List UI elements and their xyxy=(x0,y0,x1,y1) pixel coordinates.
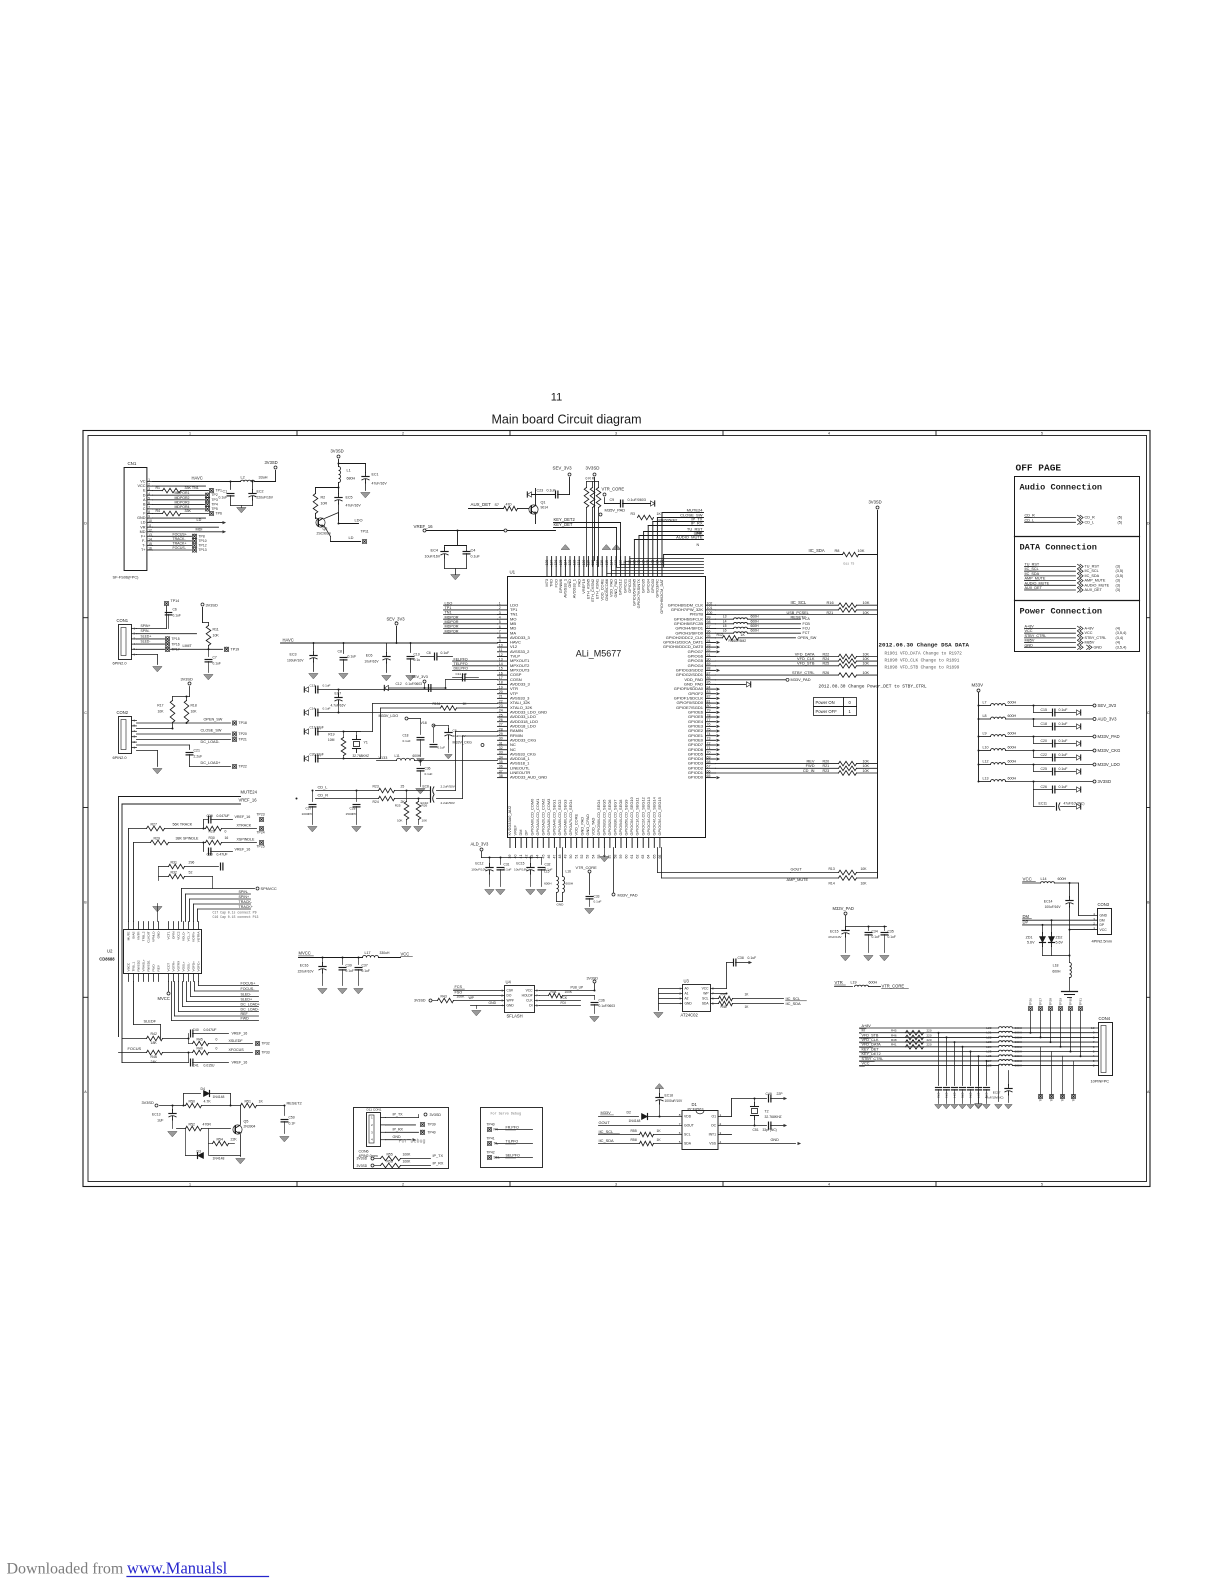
resistor R16 10K IIC_SCL xyxy=(716,600,878,608)
svg-text:STBY_CTRL: STBY_CTRL xyxy=(1085,636,1107,640)
svg-text:AUD_3V3: AUD_3V3 xyxy=(1098,716,1118,721)
connector CON1 pins xyxy=(132,626,137,656)
wire CD_R row xyxy=(296,736,498,800)
svg-text:R26: R26 xyxy=(823,671,830,675)
text For Debug xyxy=(399,1139,426,1145)
svg-text:FOCUS+: FOCUS+ xyxy=(173,532,187,536)
svg-text:TP10: TP10 xyxy=(199,539,207,543)
svg-text:VCL_Y: VCL_Y xyxy=(187,932,191,942)
svg-text:5.6V: 5.6V xyxy=(1056,941,1064,945)
svg-text:TP36: TP36 xyxy=(1061,1094,1065,1102)
svg-text:D4: D4 xyxy=(201,1087,206,1091)
svg-text:22: 22 xyxy=(499,699,503,703)
node SEV_3V5 xyxy=(412,675,428,689)
svg-text:220: 220 xyxy=(927,1043,932,1047)
svg-text:3: 3 xyxy=(499,611,501,615)
svg-text:U3: U3 xyxy=(684,979,690,984)
svg-text:C10: C10 xyxy=(414,653,420,657)
wire xtal upper row xyxy=(304,684,497,693)
svg-text:32.768KHZ: 32.768KHZ xyxy=(765,1115,782,1119)
svg-text:VCC: VCC xyxy=(401,952,410,957)
svg-text:CD_R: CD_R xyxy=(1085,516,1096,520)
svg-text:C: C xyxy=(143,507,146,511)
svg-text:0.1uF/0603: 0.1uF/0603 xyxy=(599,1004,616,1008)
svg-text:(4): (4) xyxy=(1116,641,1121,645)
svg-text:TP30: TP30 xyxy=(1069,998,1073,1006)
svg-text:7: 7 xyxy=(679,1122,681,1126)
svg-text:R54: R54 xyxy=(217,1138,223,1142)
svg-text:97: 97 xyxy=(707,625,711,629)
svg-text:GPIOC5/LCD_SEG15: GPIOC5/LCD_SEG15 xyxy=(657,797,662,835)
svg-text:CD_L: CD_L xyxy=(1085,520,1095,524)
table power on-off xyxy=(814,698,857,716)
svg-text:90: 90 xyxy=(707,657,711,661)
svg-text:66: 66 xyxy=(707,769,711,773)
svg-text:4: 4 xyxy=(828,432,830,436)
node M33V_PAD pad xyxy=(833,906,887,928)
svg-text:4PIN2.5mm: 4PIN2.5mm xyxy=(1092,939,1113,944)
svg-text:R16: R16 xyxy=(827,600,834,605)
svg-text:EC6: EC6 xyxy=(366,654,373,658)
capacitor C50 0.1F xyxy=(280,1106,295,1142)
svg-text:VCC: VCC xyxy=(862,1062,870,1066)
svg-text:EC18: EC18 xyxy=(665,1094,674,1098)
svg-text:SPNVCC: SPNVCC xyxy=(261,886,277,891)
svg-text:0: 0 xyxy=(216,1047,218,1051)
svg-text:M33V_LDO: M33V_LDO xyxy=(1098,762,1121,767)
svg-text:30: 30 xyxy=(499,737,503,741)
wire HAVC row U1 xyxy=(281,638,498,645)
offpage power signals xyxy=(1025,625,1128,650)
svg-text:C23: C23 xyxy=(537,489,544,493)
wire AUX_DET xyxy=(469,502,529,509)
svg-text:VDD: VDD xyxy=(684,1115,692,1119)
svg-text:DC_LOAD-: DC_LOAD- xyxy=(241,1008,260,1012)
inductor L19 600H VTR xyxy=(835,980,909,989)
svg-text:59: 59 xyxy=(619,855,623,859)
svg-text:(4): (4) xyxy=(1116,627,1121,631)
connector CON2 pins xyxy=(132,718,137,749)
svg-text:1N4148: 1N4148 xyxy=(213,1095,225,1099)
text DATA Connection xyxy=(1020,543,1097,553)
svg-text:10K: 10K xyxy=(863,759,870,763)
wire SPIN- row xyxy=(137,629,197,634)
svg-text:C12: C12 xyxy=(396,682,402,686)
crystal T2 32.768KHZ xyxy=(751,1099,782,1127)
svg-text:VREF_16: VREF_16 xyxy=(232,1061,248,1065)
resistor R26 10K xyxy=(414,799,428,832)
svg-text:5: 5 xyxy=(679,1140,681,1144)
wire GND_PAD arrow xyxy=(716,682,751,687)
svg-text:22K: 22K xyxy=(231,1138,238,1142)
capacitor EC10 2.2uF/50V xyxy=(421,795,456,805)
svg-text:14: 14 xyxy=(499,662,503,666)
resistor R25 10K xyxy=(395,791,411,832)
svg-text:0.1uF: 0.1uF xyxy=(173,614,181,618)
svg-text:8: 8 xyxy=(679,1113,681,1117)
svg-text:0.1uF: 0.1uF xyxy=(1059,708,1068,712)
wire U4 vcc xyxy=(540,977,599,992)
svg-text:EC15: EC15 xyxy=(830,930,839,934)
wire AMP_MUTE long xyxy=(662,848,839,883)
svg-text:SEV_3V3: SEV_3V3 xyxy=(1098,703,1117,708)
capacitor C12 0.47uF/0603 xyxy=(396,682,431,691)
svg-text:VOTRA: VOTRA xyxy=(197,931,201,943)
svg-text:13: 13 xyxy=(499,657,503,661)
svg-text:FWD: FWD xyxy=(152,964,156,972)
svg-text:OC: OC xyxy=(711,1124,717,1128)
svg-text:2: 2 xyxy=(402,432,404,436)
svg-text:0.1uF: 0.1uF xyxy=(1059,785,1068,789)
U2 top pins xyxy=(127,922,201,943)
svg-text:VREF_16: VREF_16 xyxy=(235,848,251,852)
svg-text:C17 Cap 0.1s connect P9: C17 Cap 0.1s connect P9 xyxy=(213,911,257,915)
svg-text:600H: 600H xyxy=(544,882,551,886)
svg-text:IIC_SDA: IIC_SDA xyxy=(786,1001,802,1006)
text note R1901 xyxy=(885,652,963,671)
svg-text:C20: C20 xyxy=(1041,739,1047,743)
svg-text:74: 74 xyxy=(707,732,711,736)
svg-text:TN1: TN1 xyxy=(445,611,452,615)
svg-text:10K: 10K xyxy=(191,710,198,714)
wire DC_LOAD- row xyxy=(137,737,247,744)
svg-text:R32: R32 xyxy=(171,871,177,875)
capacitor C49 22P xyxy=(766,1092,788,1102)
svg-text:VREF_16: VREF_16 xyxy=(232,1032,248,1036)
svg-text:VOSL-: VOSL- xyxy=(187,962,191,971)
inductor L2 33uH xyxy=(241,471,276,482)
svg-text:VCC: VCC xyxy=(1100,928,1108,932)
svg-text:4: 4 xyxy=(679,1002,681,1006)
U2 bottom pins xyxy=(127,959,201,981)
svg-text:DM: DM xyxy=(518,829,523,835)
svg-text:85: 85 xyxy=(707,681,711,685)
svg-text:TP4: TP4 xyxy=(212,502,218,506)
ground below EC2 xyxy=(237,506,246,513)
svg-text:GOUT: GOUT xyxy=(599,1120,611,1125)
resistor R134 1K xyxy=(433,702,498,710)
svg-text:48: 48 xyxy=(558,855,562,859)
svg-text:Power OFF: Power OFF xyxy=(816,709,838,714)
testpoint TP34-TP37 xyxy=(1038,1047,1075,1102)
svg-text:EC13: EC13 xyxy=(152,1113,161,1117)
svg-text:UNK: UNK xyxy=(695,531,703,535)
svg-text:AUX_DET: AUX_DET xyxy=(1025,586,1043,590)
svg-text:GND: GND xyxy=(1094,645,1103,649)
svg-text:2012.08.30 Change Power_DET to: 2012.08.30 Change Power_DET to STBY_CTRL xyxy=(819,684,927,690)
svg-text:0.1uF: 0.1uF xyxy=(348,655,357,659)
inductor L17 330uH xyxy=(363,951,413,958)
svg-text:DC_LOAD+: DC_LOAD+ xyxy=(201,761,222,765)
svg-text:VTR_CORE: VTR_CORE xyxy=(882,984,905,989)
capacitor EC8 2.2uF/50V xyxy=(423,785,456,795)
node 3V3SD top-center xyxy=(586,466,600,561)
offpage data signals xyxy=(1025,563,1124,593)
svg-text:SF-FS06(FPC): SF-FS06(FPC) xyxy=(113,575,140,580)
svg-text:C31: C31 xyxy=(504,863,510,867)
svg-text:73: 73 xyxy=(707,737,711,741)
svg-text:47uF/10V(NC): 47uF/10V(NC) xyxy=(1064,802,1085,806)
svg-text:TP27: TP27 xyxy=(1039,998,1043,1006)
svg-text:(5): (5) xyxy=(1118,520,1123,524)
svg-text:TP40: TP40 xyxy=(428,1131,436,1135)
svg-text:31: 31 xyxy=(499,741,503,745)
svg-text:33K TN1: 33K TN1 xyxy=(185,486,199,490)
svg-text:GND_CPAD: GND_CPAD xyxy=(585,814,590,836)
resistor R19 10M xyxy=(328,731,346,760)
svg-text:34: 34 xyxy=(499,755,503,759)
svg-text:EC8: EC8 xyxy=(423,785,430,789)
svg-text:R11: R11 xyxy=(213,628,219,632)
svg-text:10K: 10K xyxy=(422,819,428,823)
svg-text:3V3SD: 3V3SD xyxy=(206,603,219,608)
svg-text:3: 3 xyxy=(615,1183,617,1187)
inductor L16 600H xyxy=(557,848,573,907)
svg-text:M: M xyxy=(862,1029,865,1033)
text note 2012 power xyxy=(819,684,927,690)
svg-text:10K: 10K xyxy=(861,882,868,886)
svg-text:6: 6 xyxy=(1093,1045,1095,1049)
svg-text:25: 25 xyxy=(401,785,405,789)
svg-text:L19: L19 xyxy=(851,981,857,985)
svg-text:AUDIO_MUTE: AUDIO_MUTE xyxy=(1085,583,1110,587)
svg-text:Downloaded from: Downloaded from xyxy=(7,1561,124,1578)
svg-text:DP: DP xyxy=(1100,923,1105,927)
svg-text:HOLD#: HOLD# xyxy=(522,994,533,998)
svg-text:WP#: WP# xyxy=(507,999,514,1003)
svg-text:A+8V: A+8V xyxy=(1085,627,1095,631)
svg-text:37: 37 xyxy=(499,769,503,773)
svg-text:(3,5): (3,5) xyxy=(1116,574,1124,578)
testpoint TP26-TP31 xyxy=(1028,998,1082,1057)
node M33V xyxy=(972,683,984,782)
capacitor C36 0.1uF/0603 xyxy=(590,996,615,1022)
text Power Connection xyxy=(1020,607,1103,617)
svg-text:TRB_2: TRB_2 xyxy=(142,931,146,941)
svg-text:0.1uF: 0.1uF xyxy=(403,739,411,743)
svg-text:1000PF: 1000PF xyxy=(302,812,313,816)
svg-text:78: 78 xyxy=(707,713,711,717)
border frame outer xyxy=(83,431,1150,1187)
svg-text:L10: L10 xyxy=(983,746,989,750)
svg-text:91: 91 xyxy=(707,653,711,657)
text note 2012 DSA xyxy=(879,642,970,649)
svg-text:R24: R24 xyxy=(373,800,379,804)
svg-text:47uF/16V: 47uF/16V xyxy=(372,482,388,486)
svg-text:VR: VR xyxy=(140,525,146,529)
svg-text:VOLD-: VOLD- xyxy=(182,932,186,942)
wire MUTE24 xyxy=(119,790,258,1037)
svg-text:VDD_CORE: VDD_CORE xyxy=(574,813,579,835)
svg-text:DM: DM xyxy=(1023,914,1030,919)
wire HAVC xyxy=(153,476,254,487)
resistor R55 100K xyxy=(357,1152,444,1161)
svg-text:A+8V: A+8V xyxy=(1025,625,1035,629)
op-amp U2 CD8688 body xyxy=(99,930,201,974)
svg-text:VCC2: VCC2 xyxy=(177,931,181,940)
svg-text:47uF/10V: 47uF/10V xyxy=(828,935,842,939)
svg-text:1UF: 1UF xyxy=(157,1119,163,1123)
svg-text:26: 26 xyxy=(499,718,503,722)
svg-text:1N4148: 1N4148 xyxy=(629,1119,641,1123)
svg-text:AVDD33_AUD_GND: AVDD33_AUD_GND xyxy=(510,775,547,780)
svg-text:36: 36 xyxy=(499,765,503,769)
svg-text:1K: 1K xyxy=(259,1100,264,1104)
svg-text:C15: C15 xyxy=(1041,708,1047,712)
svg-text:0: 0 xyxy=(216,1038,218,1042)
svg-text:TP32: TP32 xyxy=(262,1042,270,1046)
svg-text:AUX_DET: AUX_DET xyxy=(1085,588,1103,592)
svg-text:3V3SD: 3V3SD xyxy=(142,1100,155,1105)
svg-text:58: 58 xyxy=(614,855,618,859)
node MVCC U2 xyxy=(158,982,171,1002)
capacitor EC13b 10uF/16V xyxy=(514,858,535,895)
svg-text:GPIOA7/LCD_SEG4: GPIOA7/LCD_SEG4 xyxy=(568,799,573,836)
svg-text:R48: R48 xyxy=(721,1005,727,1009)
svg-text:0.1u: 0.1u xyxy=(414,658,421,662)
svg-text:FCB: FCB xyxy=(803,622,811,626)
svg-text:GND: GND xyxy=(557,903,565,907)
svg-text:MUTE24: MUTE24 xyxy=(241,790,258,795)
svg-text:EC12: EC12 xyxy=(475,862,483,866)
svg-text:LD: LD xyxy=(197,518,202,522)
svg-text:For Debug: For Debug xyxy=(399,1139,426,1145)
wire VREF_16 xyxy=(414,524,556,545)
svg-text:STBY_CTRL: STBY_CTRL xyxy=(792,670,815,675)
resistor R26b 10K STBY xyxy=(716,670,878,678)
wire GOUT long xyxy=(658,848,803,873)
wire SLED+ row xyxy=(137,634,180,641)
svg-text:3V3SD: 3V3SD xyxy=(869,500,882,505)
svg-text:XFOCUS: XFOCUS xyxy=(229,1048,245,1052)
wire R2 branch xyxy=(316,487,340,494)
svg-text:MDPOR: MDPOR xyxy=(445,615,459,619)
svg-text:C16 Cap 0.1S connect P13: C16 Cap 0.1S connect P13 xyxy=(213,915,259,919)
svg-text:100K: 100K xyxy=(403,1152,412,1156)
svg-text:MVCC: MVCC xyxy=(158,996,170,1001)
wire LDO row xyxy=(325,513,363,525)
svg-text:MUTE: MUTE xyxy=(127,932,131,941)
svg-text:GPIOC4/LCD_SEG14: GPIOC4/LCD_SEG14 xyxy=(651,796,656,835)
svg-text:TILPFO: TILPFO xyxy=(506,1140,519,1144)
svg-text:LD: LD xyxy=(349,535,354,540)
capacitor C9 0.1uF/0603 xyxy=(605,498,655,507)
svg-text:32: 32 xyxy=(499,746,503,750)
svg-text:STBY_CTRL: STBY_CTRL xyxy=(862,1057,884,1061)
svg-text:DELPFO: DELPFO xyxy=(454,667,469,671)
svg-text:8: 8 xyxy=(1093,1035,1095,1039)
svg-text:93: 93 xyxy=(707,643,711,647)
svg-text:99: 99 xyxy=(707,616,711,620)
svg-text:TP35: TP35 xyxy=(1050,1094,1054,1102)
svg-text:C36: C36 xyxy=(425,767,431,771)
svg-text:VCC: VCC xyxy=(1023,877,1033,882)
svg-text:220: 220 xyxy=(927,1029,932,1033)
svg-text:R49: R49 xyxy=(197,1047,203,1051)
svg-text:VFD_DATA: VFD_DATA xyxy=(862,1043,882,1047)
svg-text:L12: L12 xyxy=(983,760,989,764)
svg-text:EC3: EC3 xyxy=(289,653,296,657)
svg-text:U2: U2 xyxy=(107,949,113,954)
svg-text:C30: C30 xyxy=(207,853,213,857)
svg-text:0.047UF: 0.047UF xyxy=(217,814,230,818)
svg-text:47: 47 xyxy=(552,855,556,859)
svg-text:N: N xyxy=(697,543,700,547)
svg-text:R1901 VFD_DATA Change to R1972: R1901 VFD_DATA Change to R1972 xyxy=(885,652,963,657)
svg-text:EC11: EC11 xyxy=(1039,802,1048,806)
svg-text:L14: L14 xyxy=(1041,877,1047,881)
svg-text:CN1: CN1 xyxy=(128,461,137,466)
svg-text:C6: C6 xyxy=(173,608,177,612)
svg-text:C7: C7 xyxy=(213,656,217,660)
svg-text:TP8: TP8 xyxy=(199,534,205,538)
svg-text:VREF: VREF xyxy=(513,825,518,836)
svg-text:GND: GND xyxy=(489,1001,497,1005)
svg-text:2: 2 xyxy=(501,994,503,998)
svg-text:L26: L26 xyxy=(986,1054,991,1058)
svg-text:4: 4 xyxy=(499,616,501,620)
svg-text:R23: R23 xyxy=(373,785,379,789)
wire KEY_DET xyxy=(554,522,617,566)
svg-text:CON1: CON1 xyxy=(117,618,129,623)
svg-text:SLED-: SLED- xyxy=(241,993,252,997)
svg-text:L28: L28 xyxy=(986,1064,991,1068)
svg-text:L25: L25 xyxy=(986,1050,991,1054)
svg-text:CLK: CLK xyxy=(526,999,533,1003)
svg-text:C27: C27 xyxy=(306,807,312,811)
svg-text:3: 3 xyxy=(679,997,681,1001)
svg-text:WP: WP xyxy=(469,996,475,1000)
svg-text:60: 60 xyxy=(625,855,629,859)
capacitor C18 0.1uF xyxy=(1034,719,1081,730)
svg-text:TP11: TP11 xyxy=(361,530,369,534)
capacitor EC5 47uF/16V xyxy=(335,494,361,521)
resistor R46 24K xyxy=(147,1050,190,1064)
svg-text:C25: C25 xyxy=(1041,767,1047,771)
svg-text:IP_TX: IP_TX xyxy=(393,1113,404,1117)
svg-text:24: 24 xyxy=(499,709,503,713)
svg-text:0.1uF: 0.1uF xyxy=(872,935,880,939)
svg-text:1: 1 xyxy=(189,1183,191,1187)
svg-text:10K: 10K xyxy=(863,764,870,768)
svg-text:U4: U4 xyxy=(506,980,512,985)
svg-text:0.047UF: 0.047UF xyxy=(204,1028,217,1032)
capacitor C37 0.1uF xyxy=(354,958,370,994)
text Audio Connection xyxy=(1020,483,1103,493)
svg-text:C38: C38 xyxy=(738,956,744,960)
svg-text:TRACK+: TRACK+ xyxy=(239,905,253,909)
wire VCC pin row xyxy=(1069,929,1098,931)
svg-text:A2: A2 xyxy=(685,997,689,1001)
svg-text:1: 1 xyxy=(679,987,681,991)
svg-text:ALi_M5677: ALi_M5677 xyxy=(576,649,622,659)
svg-text:REV: REV xyxy=(157,964,161,971)
U1 top pins 128-103 xyxy=(544,560,664,614)
svg-text:95: 95 xyxy=(707,634,711,638)
svg-text:0.1uF: 0.1uF xyxy=(594,900,602,904)
svg-text:600H: 600H xyxy=(869,981,878,985)
svg-text:0.1uF: 0.1uF xyxy=(748,956,757,960)
svg-text:6: 6 xyxy=(679,1131,681,1135)
svg-text:11: 11 xyxy=(499,648,503,652)
svg-text:TP14: TP14 xyxy=(171,599,180,603)
svg-text:10: 10 xyxy=(1091,1026,1095,1030)
svg-text:5: 5 xyxy=(1041,1183,1043,1187)
svg-text:0.1uF: 0.1uF xyxy=(441,651,450,655)
capacitor EC1 47uF/16V xyxy=(362,473,387,491)
svg-text:(3,5,4): (3,5,4) xyxy=(1116,631,1128,635)
resistor R1 33K xyxy=(153,486,222,493)
